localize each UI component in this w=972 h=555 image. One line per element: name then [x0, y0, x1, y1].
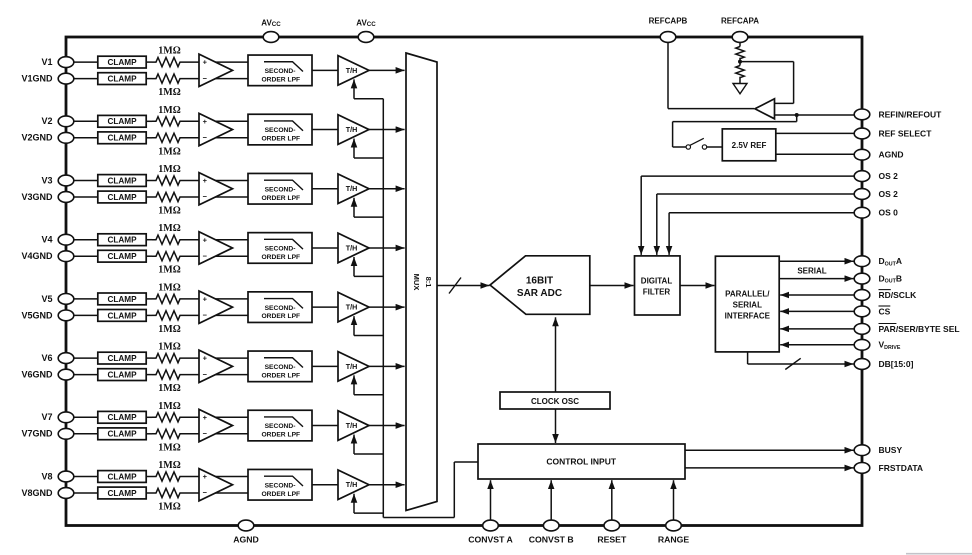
svg-text:SECOND-: SECOND- — [265, 482, 296, 489]
svg-text:SERIAL: SERIAL — [797, 266, 826, 275]
svg-text:CLAMP: CLAMP — [107, 134, 137, 143]
svg-text:AGND: AGND — [879, 150, 904, 160]
svg-text:1MΩ: 1MΩ — [158, 146, 180, 157]
svg-text:1MΩ: 1MΩ — [158, 442, 180, 453]
svg-text:FRSTDATA: FRSTDATA — [879, 463, 924, 473]
svg-text:FILTER: FILTER — [643, 288, 671, 297]
svg-text:V8: V8 — [41, 471, 52, 481]
svg-text:V2: V2 — [41, 116, 52, 126]
svg-text:ORDER LPF: ORDER LPF — [261, 313, 300, 320]
svg-text:DIGITAL: DIGITAL — [641, 276, 673, 285]
svg-text:OS 2: OS 2 — [879, 189, 899, 199]
svg-text:1MΩ: 1MΩ — [158, 105, 180, 116]
svg-text:AVCC: AVCC — [261, 19, 281, 28]
svg-text:CLOCK OSC: CLOCK OSC — [531, 397, 579, 406]
svg-text:−: − — [203, 192, 208, 201]
svg-text:+: + — [203, 117, 208, 126]
svg-text:−: − — [203, 429, 208, 438]
svg-text:ORDER LPF: ORDER LPF — [261, 372, 300, 379]
svg-text:BUSY: BUSY — [879, 445, 903, 455]
svg-text:CLAMP: CLAMP — [107, 371, 137, 380]
svg-text:−: − — [203, 133, 208, 142]
svg-text:T/H: T/H — [346, 303, 358, 312]
svg-text:+: + — [203, 295, 208, 304]
svg-text:16BIT: 16BIT — [526, 275, 553, 286]
svg-text:T/H: T/H — [346, 125, 358, 134]
svg-text:REFCAPB: REFCAPB — [649, 17, 688, 26]
svg-text:RESET: RESET — [597, 535, 627, 545]
svg-text:T/H: T/H — [346, 66, 358, 75]
svg-text:CLAMP: CLAMP — [107, 252, 137, 261]
svg-text:REFIN/REFOUT: REFIN/REFOUT — [879, 109, 943, 119]
svg-text:V2GND: V2GND — [21, 133, 53, 143]
svg-text:1MΩ: 1MΩ — [158, 164, 180, 175]
svg-text:SECOND-: SECOND- — [265, 423, 296, 430]
svg-text:CLAMP: CLAMP — [107, 236, 137, 245]
svg-text:REF SELECT: REF SELECT — [879, 128, 933, 138]
svg-text:+: + — [203, 354, 208, 363]
svg-text:CLAMP: CLAMP — [107, 354, 137, 363]
svg-text:V7: V7 — [41, 412, 52, 422]
svg-text:CLAMP: CLAMP — [107, 311, 137, 320]
svg-text:DB[15:0]: DB[15:0] — [879, 359, 914, 369]
svg-text:CLAMP: CLAMP — [107, 489, 137, 498]
svg-text:2.5V REF: 2.5V REF — [732, 141, 767, 150]
svg-text:V5: V5 — [41, 294, 52, 304]
svg-text:1MΩ: 1MΩ — [158, 502, 180, 513]
svg-text:1MΩ: 1MΩ — [158, 460, 180, 471]
svg-text:V4: V4 — [41, 235, 52, 245]
svg-text:V7GND: V7GND — [21, 429, 53, 439]
svg-text:1MΩ: 1MΩ — [158, 265, 180, 276]
svg-text:ORDER LPF: ORDER LPF — [261, 254, 300, 261]
svg-text:T/H: T/H — [346, 421, 358, 430]
svg-text:CLAMP: CLAMP — [107, 295, 137, 304]
svg-text:+: + — [203, 472, 208, 481]
svg-text:1MΩ: 1MΩ — [158, 383, 180, 394]
svg-text:1MΩ: 1MΩ — [158, 206, 180, 217]
svg-text:1MΩ: 1MΩ — [158, 87, 180, 98]
svg-text:T/H: T/H — [346, 243, 358, 252]
svg-text:V1: V1 — [41, 57, 52, 67]
svg-text:−: − — [203, 311, 208, 320]
svg-text:SECOND-: SECOND- — [265, 364, 296, 371]
svg-text:REFCAPA: REFCAPA — [721, 17, 759, 26]
svg-text:V1GND: V1GND — [21, 74, 53, 84]
svg-text:1MΩ: 1MΩ — [158, 324, 180, 335]
svg-text:−: − — [203, 251, 208, 260]
svg-text:T/H: T/H — [346, 184, 358, 193]
svg-text:−: − — [203, 488, 208, 497]
svg-text:CLAMP: CLAMP — [107, 472, 137, 481]
svg-text:V3: V3 — [41, 175, 52, 185]
svg-text:V4GND: V4GND — [21, 251, 53, 261]
svg-text:CLAMP: CLAMP — [107, 430, 137, 439]
svg-text:CONVST B: CONVST B — [529, 535, 574, 545]
svg-text:ORDER LPF: ORDER LPF — [261, 432, 300, 439]
svg-text:ORDER LPF: ORDER LPF — [261, 195, 300, 202]
svg-text:SECOND-: SECOND- — [265, 305, 296, 312]
svg-text:V8GND: V8GND — [21, 488, 53, 498]
svg-text:ORDER LPF: ORDER LPF — [261, 76, 300, 83]
svg-text:CLAMP: CLAMP — [107, 193, 137, 202]
svg-text:OS 0: OS 0 — [879, 208, 899, 218]
svg-text:V3GND: V3GND — [21, 192, 53, 202]
svg-text:1MΩ: 1MΩ — [158, 46, 180, 57]
svg-text:T/H: T/H — [346, 362, 358, 371]
svg-text:SECOND-: SECOND- — [265, 127, 296, 134]
svg-text:−: − — [203, 370, 208, 379]
svg-text:+: + — [203, 413, 208, 422]
svg-text:T/H: T/H — [346, 480, 358, 489]
svg-text:CLAMP: CLAMP — [107, 75, 137, 84]
svg-text:+: + — [203, 235, 208, 244]
svg-text:PAR/SER/BYTE SEL: PAR/SER/BYTE SEL — [879, 324, 960, 334]
svg-text:SECOND-: SECOND- — [265, 186, 296, 193]
svg-text:PARALLEL/: PARALLEL/ — [725, 289, 770, 298]
svg-text:AGND: AGND — [233, 535, 259, 545]
svg-text:SECOND-: SECOND- — [265, 68, 296, 75]
svg-text:SERIAL: SERIAL — [733, 300, 762, 309]
svg-text:ORDER LPF: ORDER LPF — [261, 136, 300, 143]
svg-text:1MΩ: 1MΩ — [158, 223, 180, 234]
svg-text:SAR ADC: SAR ADC — [517, 288, 562, 299]
svg-text:−: − — [203, 74, 208, 83]
svg-text:RD/SCLK: RD/SCLK — [879, 290, 918, 300]
svg-text:CONTROL INPUT: CONTROL INPUT — [546, 456, 617, 466]
svg-text:CS: CS — [879, 306, 891, 316]
svg-text:V5GND: V5GND — [21, 310, 53, 320]
svg-text:V6: V6 — [41, 353, 52, 363]
svg-text:INTERFACE: INTERFACE — [725, 311, 771, 320]
svg-text:AVCC: AVCC — [356, 19, 376, 28]
svg-text:CLAMP: CLAMP — [107, 176, 137, 185]
svg-text:CLAMP: CLAMP — [107, 58, 137, 67]
svg-text:CLAMP: CLAMP — [107, 413, 137, 422]
svg-text:1MΩ: 1MΩ — [158, 342, 180, 353]
svg-text:CONVST A: CONVST A — [468, 535, 513, 545]
svg-text:SECOND-: SECOND- — [265, 246, 296, 253]
svg-text:OS 2: OS 2 — [879, 171, 899, 181]
svg-text:+: + — [203, 176, 208, 185]
svg-text:1MΩ: 1MΩ — [158, 282, 180, 293]
svg-text:+: + — [203, 58, 208, 67]
svg-text:ORDER LPF: ORDER LPF — [261, 491, 300, 498]
svg-text:V6GND: V6GND — [21, 370, 53, 380]
svg-text:RANGE: RANGE — [658, 535, 690, 545]
svg-text:CLAMP: CLAMP — [107, 117, 137, 126]
svg-text:1MΩ: 1MΩ — [158, 401, 180, 412]
